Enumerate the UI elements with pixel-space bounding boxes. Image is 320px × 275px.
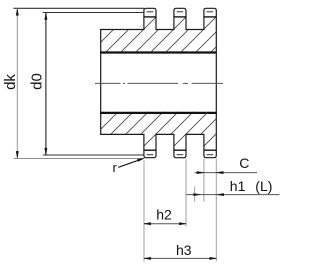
svg-text:h3: h3	[176, 242, 192, 258]
C dimension	[195, 172, 257, 174]
dk extension line top	[14, 7, 145, 9]
svg-text:dk: dk	[2, 74, 19, 90]
svg-text:r: r	[113, 160, 118, 175]
extension line h1 left bound	[194, 187, 196, 202]
hatching top band	[53, 0, 278, 75]
pitch dashes top	[147, 11, 214, 13]
pitch dashes bottom	[147, 154, 214, 156]
svg-text:(L): (L)	[255, 178, 272, 194]
thick section line top	[100, 51, 217, 53]
h2 dimension	[144, 223, 186, 225]
extension line body right face	[215, 159, 217, 262]
dk dimension line	[16, 8, 18, 158]
svg-text:d0: d0	[29, 73, 46, 90]
tooth inner lines bottom	[144, 149, 216, 151]
hatching bottom band	[15, 80, 270, 200]
thick section line bottom	[100, 112, 217, 114]
d0 extension line bottom	[43, 154, 144, 156]
h3 dimension	[144, 257, 217, 259]
centerline	[95, 82, 223, 84]
extension line tooth row 3 left face	[203, 159, 205, 202]
svg-text:h2: h2	[156, 206, 172, 222]
sprocket body outline	[101, 8, 217, 157]
tooth inner lines top	[144, 16, 216, 18]
extension line tooth row 1 left face	[143, 161, 145, 262]
dk extension line bottom	[14, 158, 145, 160]
h1 (L) dimension	[186, 194, 279, 196]
d0 extension line top	[43, 12, 144, 14]
extension line tooth row 2 right face	[185, 159, 187, 227]
d0 dimension line	[45, 13, 47, 156]
svg-text:h1: h1	[230, 178, 246, 194]
svg-text:C: C	[239, 155, 249, 171]
